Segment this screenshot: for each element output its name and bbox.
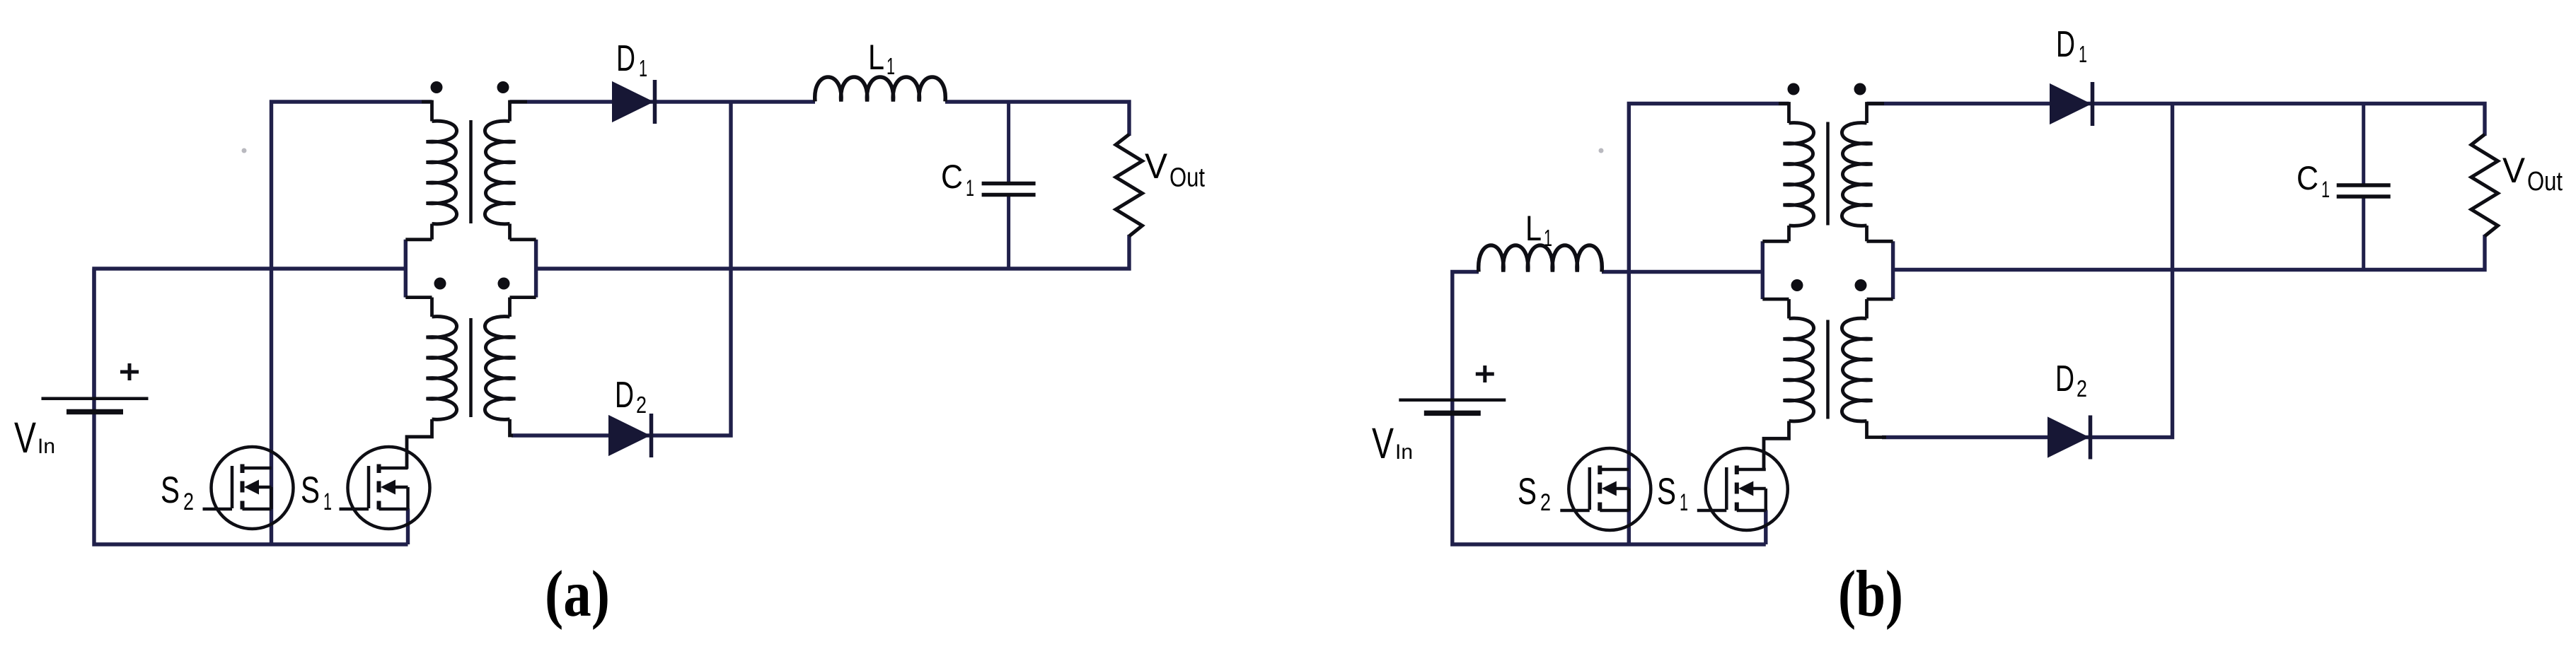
svg-text:In: In (1395, 440, 1413, 464)
svg-text:L: L (868, 37, 884, 77)
svg-text:C: C (941, 158, 963, 195)
svg-text:D: D (2056, 24, 2075, 65)
svg-text:2: 2 (183, 489, 194, 515)
svg-text:1: 1 (639, 55, 647, 81)
svg-text:V: V (14, 414, 36, 462)
svg-text:1: 1 (2321, 177, 2330, 202)
svg-text:D: D (615, 375, 634, 416)
svg-text:D: D (616, 38, 635, 79)
svg-text:1: 1 (2079, 41, 2087, 67)
svg-text:(b): (b) (1838, 558, 1903, 631)
svg-text:S: S (161, 469, 180, 511)
svg-text:1: 1 (966, 175, 974, 201)
svg-text:V: V (1145, 146, 1168, 186)
svg-text:Out: Out (1169, 163, 1205, 193)
svg-text:In: In (37, 435, 55, 458)
svg-text:S: S (301, 469, 320, 511)
svg-text:2: 2 (2077, 375, 2087, 402)
svg-text:1: 1 (1544, 225, 1552, 251)
svg-text:C: C (2297, 159, 2318, 197)
svg-text:1: 1 (323, 489, 332, 515)
svg-text:V: V (1372, 419, 1394, 467)
svg-text:L: L (1525, 209, 1542, 248)
svg-text:1: 1 (886, 53, 895, 79)
svg-text:2: 2 (1540, 489, 1551, 516)
svg-text:D: D (2055, 358, 2074, 399)
svg-text:(a): (a) (545, 558, 610, 631)
svg-text:V: V (2502, 151, 2526, 190)
svg-text:S: S (1657, 471, 1676, 513)
svg-text:S: S (1518, 471, 1537, 513)
svg-text:1: 1 (1680, 489, 1688, 516)
svg-text:Out: Out (2527, 167, 2563, 197)
svg-text:2: 2 (636, 392, 647, 418)
